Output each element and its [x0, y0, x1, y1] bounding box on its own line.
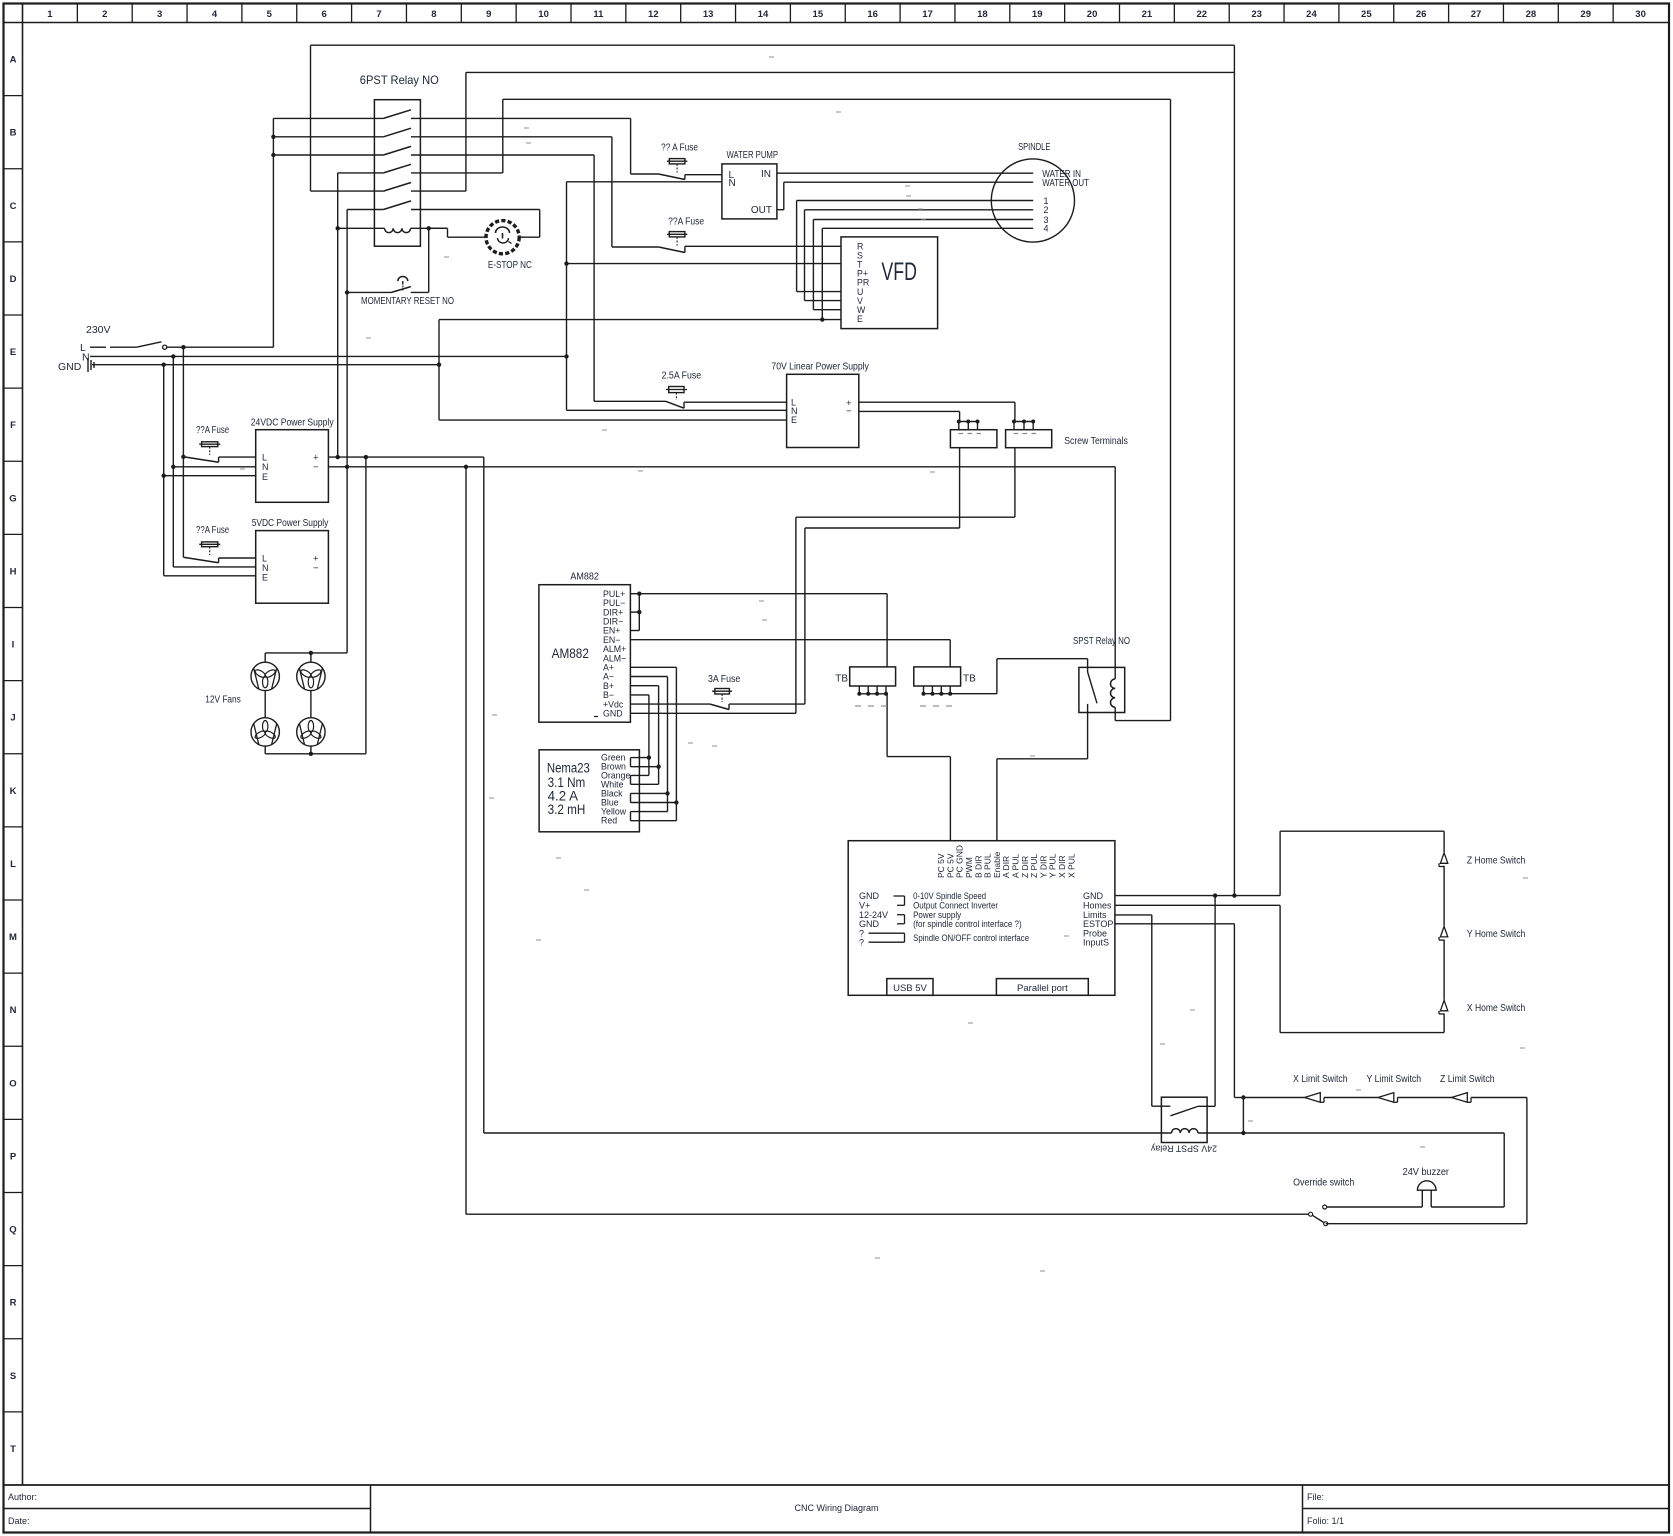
- svg-text:InputS: InputS: [1083, 938, 1109, 948]
- node chain left: [1241, 1095, 1245, 1099]
- relay contact 3 blade: [383, 146, 411, 155]
- driver AM882 box: [539, 585, 631, 723]
- spindle motor circle: [991, 159, 1074, 242]
- svg-text:E: E: [262, 472, 268, 482]
- wire spindle 1 (U): [797, 200, 1034, 202]
- node N riser junction: [564, 354, 568, 358]
- node sw3 tap: [271, 153, 275, 157]
- relay 6PST box K1: [374, 100, 420, 247]
- wire buzzer line: [1327, 1206, 1423, 1208]
- svg-text:15: 15: [813, 9, 824, 20]
- 5VDC power supply box: [256, 531, 329, 604]
- controller board box: [848, 841, 1115, 996]
- svg-text:12V Fans: 12V Fans: [205, 695, 241, 706]
- svg-text:USB 5V: USB 5V: [893, 983, 927, 994]
- node -24 override riser: [464, 465, 468, 469]
- svg-text:2.5A Fuse: 2.5A Fuse: [662, 371, 702, 382]
- wire 24V E: [164, 475, 256, 477]
- svg-text:N: N: [262, 462, 269, 472]
- wire +24 riser to 24V relay coil: [483, 457, 485, 1133]
- svg-text:Output Connect Inverter: Output Connect Inverter: [913, 901, 998, 911]
- fuse F3 2.5A: [669, 387, 684, 393]
- svg-text:L: L: [262, 553, 267, 563]
- wire sw6 left riser: [347, 209, 383, 211]
- svg-text:2: 2: [1044, 205, 1049, 215]
- wire 70V E: [439, 419, 787, 421]
- wire fans top rail: [265, 652, 347, 654]
- wire L riser up: [272, 118, 274, 347]
- wire VFD R: [685, 245, 841, 247]
- svg-text:GND: GND: [1083, 891, 1104, 901]
- fuse F1 ??A (water pump): [669, 159, 685, 164]
- screw terminal block 1: [950, 430, 997, 448]
- fuse F4 ??A (24VDC): [202, 442, 218, 447]
- fuse F6 3A: [715, 689, 730, 695]
- svg-text:Y Limit Switch: Y Limit Switch: [1367, 1074, 1422, 1085]
- switch X home: [1440, 1000, 1447, 1011]
- wire GND pin to homes loop: [1115, 895, 1280, 897]
- switch MOMENTARY RESET NO: [347, 291, 391, 293]
- svg-text:12: 12: [648, 9, 659, 20]
- wire spindle 2 (V): [805, 209, 1034, 211]
- svg-text:13: 13: [703, 9, 714, 20]
- 70V linear power supply box: [787, 374, 859, 447]
- wire home loop: [1279, 831, 1281, 895]
- svg-text:−: −: [313, 563, 319, 574]
- wire E-STOP left to coil node: [448, 236, 487, 238]
- svg-text:GND: GND: [58, 361, 82, 373]
- wire pump IN to spindle: [777, 172, 1033, 174]
- fuse F5 ??A (5VDC): [202, 542, 218, 547]
- svg-text:CNC Wiring Diagram: CNC Wiring Diagram: [794, 1503, 878, 1513]
- fan M3: [251, 718, 279, 746]
- node T tap: [564, 261, 568, 265]
- wire reset right riser: [428, 228, 430, 292]
- svg-text:Folio: 1/1: Folio: 1/1: [1307, 1516, 1344, 1526]
- wire sw1 left from L riser: [273, 117, 383, 119]
- water pump box: [722, 164, 777, 219]
- wire TB2 to SPST relay switch: [996, 659, 998, 694]
- wire sw3 right to 2.5A fuse: [411, 154, 594, 156]
- svg-text:X PUL: X PUL: [1066, 853, 1076, 878]
- node DIR+: [637, 610, 641, 614]
- svg-text:Parallel port: Parallel port: [1017, 983, 1068, 994]
- node GND sw5: [1232, 893, 1236, 897]
- relay K3 coil on +24 line: [484, 1132, 1172, 1134]
- svg-text:TB: TB: [963, 674, 976, 685]
- svg-text:25: 25: [1361, 9, 1372, 20]
- wire block1 bottom to AM882 +Vdc (via 3A fuse): [959, 448, 961, 528]
- wire PUL+/DIR+/EN+ jumper: [630, 593, 639, 595]
- svg-text:X Home Switch: X Home Switch: [1467, 1003, 1525, 1014]
- svg-text:4: 4: [1044, 223, 1049, 233]
- wire Homes pin: [1115, 904, 1280, 906]
- switch X limit: [1305, 1093, 1321, 1103]
- svg-text:Author:: Author:: [8, 1492, 37, 1502]
- wire TB1 to controller PC5V: [886, 694, 888, 757]
- wire motor Black: [631, 792, 668, 794]
- wire B-: [630, 694, 649, 696]
- wire sw2 right to VFD fuse: [411, 136, 612, 138]
- wire K2 switch bottom to Enable: [1087, 704, 1089, 759]
- title block: [4, 1484, 1670, 1486]
- svg-text:Screw Terminals: Screw Terminals: [1064, 436, 1128, 447]
- node L junction: [181, 345, 185, 349]
- svg-text:Nema23: Nema23: [547, 761, 590, 776]
- wire motor Yellow: [631, 811, 668, 813]
- node fan rail2: [309, 752, 313, 756]
- node N 24V tap: [171, 465, 175, 469]
- relay contact 2 blade: [383, 128, 411, 137]
- wire EN- bus to TB2: [630, 639, 950, 641]
- controller left brackets: [894, 895, 905, 897]
- svg-text:TB: TB: [835, 674, 848, 685]
- svg-text:21: 21: [1142, 9, 1153, 20]
- wire +24 rail: [328, 456, 483, 458]
- svg-text:30: 30: [1635, 9, 1646, 20]
- wire N rail: [90, 355, 567, 357]
- svg-text:File:: File:: [1307, 1492, 1324, 1502]
- svg-text:GND: GND: [603, 709, 623, 719]
- svg-text:3: 3: [157, 9, 162, 20]
- svg-text:E: E: [262, 573, 268, 583]
- relay coil K1: [338, 227, 385, 229]
- node +24 coil riser: [336, 455, 340, 459]
- svg-text:AM882: AM882: [552, 645, 589, 661]
- svg-text:−: −: [313, 462, 319, 473]
- svg-text:I: I: [12, 640, 15, 651]
- terminal block TB2: [914, 667, 961, 686]
- svg-text:??A Fuse: ??A Fuse: [668, 217, 704, 228]
- svg-text:A: A: [10, 55, 17, 66]
- wire Limits pin to 24V relay: [1115, 914, 1152, 916]
- svg-text:Z Limit Switch: Z Limit Switch: [1440, 1074, 1495, 1085]
- wire block2 bottom to AM882 GND: [1014, 448, 1016, 518]
- svg-text:5VDC Power Supply: 5VDC Power Supply: [252, 518, 329, 529]
- switch Y limit: [1378, 1093, 1394, 1103]
- svg-text:E: E: [791, 415, 797, 425]
- wire top bus y72: [466, 71, 1235, 73]
- svg-text:E: E: [857, 314, 863, 324]
- svg-text:Q: Q: [9, 1225, 16, 1236]
- wire ESTOP pin to limit chain: [1115, 923, 1235, 925]
- svg-text:N: N: [262, 563, 269, 573]
- fuse F2 ??A (VFD): [669, 232, 685, 237]
- svg-text:3A Fuse: 3A Fuse: [708, 673, 740, 685]
- svg-text:E: E: [10, 347, 16, 358]
- svg-text:Override switch: Override switch: [1293, 1178, 1354, 1189]
- relay K2 blade: [1088, 672, 1097, 703]
- wire sw4 right to SPST coil riser: [411, 172, 503, 174]
- wire top bus y45: [311, 44, 1235, 46]
- wire motor Orange: [631, 774, 649, 776]
- svg-text:5: 5: [267, 9, 273, 20]
- relay 24V SPST box K3: [1161, 1097, 1207, 1142]
- main disconnect switch: [137, 342, 162, 347]
- node N junction: [171, 354, 175, 358]
- relay SPST NO box K2: [1079, 667, 1125, 712]
- node reset left: [345, 290, 349, 294]
- svg-text:6: 6: [322, 9, 327, 20]
- 24VDC power supply box: [256, 430, 329, 503]
- svg-text:WATER PUMP: WATER PUMP: [727, 150, 779, 161]
- pushbutton E-STOP NC: [486, 221, 519, 254]
- svg-text:L: L: [262, 453, 267, 463]
- screw terminal block 2: [1006, 430, 1052, 448]
- node coil right: [427, 226, 431, 230]
- relay contact 4 blade: [383, 164, 411, 173]
- wire sw1 right to water pump fuse: [411, 117, 631, 119]
- svg-text:T: T: [10, 1444, 16, 1455]
- ground symbol: [87, 358, 89, 372]
- wire 70V N: [567, 409, 787, 411]
- wire override riser: [465, 467, 467, 1214]
- wire chain tap to coil line: [1242, 1098, 1244, 1134]
- svg-text:28: 28: [1526, 9, 1537, 20]
- svg-text:Spindle ON/OFF control interfa: Spindle ON/OFF control interface: [913, 933, 1029, 943]
- svg-text:??A Fuse: ??A Fuse: [196, 525, 229, 536]
- wire B+: [630, 685, 658, 687]
- motor Nema23 box: [539, 750, 639, 832]
- svg-text:SPST Relay NO: SPST Relay NO: [1073, 636, 1130, 647]
- node coil left: [336, 226, 340, 230]
- svg-text:20: 20: [1087, 9, 1098, 20]
- relay contact 6 blade: [383, 201, 411, 210]
- wire fans bottom rail: [265, 753, 366, 755]
- node 24V fuse tap: [181, 455, 185, 459]
- decorative stamps: [769, 56, 774, 58]
- svg-text:OUT: OUT: [751, 205, 772, 216]
- wire -24 riser (reset/fans): [346, 210, 348, 653]
- node E 24V tap: [162, 474, 166, 478]
- VFD box U2: [841, 237, 938, 329]
- svg-text:E-STOP NC: E-STOP NC: [488, 259, 532, 271]
- node GND branch: [1213, 893, 1217, 897]
- relay K3 blade: [1170, 1106, 1198, 1115]
- svg-text:O: O: [9, 1078, 16, 1089]
- svg-text:B: B: [10, 128, 17, 139]
- svg-text:1: 1: [47, 9, 53, 20]
- wire sw5 left riser: [311, 190, 384, 192]
- svg-text:26: 26: [1416, 9, 1427, 20]
- svg-text:16: 16: [867, 9, 878, 20]
- relay contact 5 blade: [383, 183, 411, 192]
- svg-text:6PST Relay NO: 6PST Relay NO: [360, 73, 439, 87]
- node limit tap: [1241, 1131, 1245, 1135]
- wire +Vdc through 3A fuse: [630, 703, 710, 705]
- svg-text:MOMENTARY RESET NO: MOMENTARY RESET NO: [361, 296, 454, 307]
- svg-text:230V: 230V: [86, 324, 111, 336]
- svg-text:?? A Fuse: ?? A Fuse: [661, 143, 698, 154]
- node -24 reset riser: [345, 465, 349, 469]
- svg-text:M: M: [9, 932, 17, 943]
- svg-text:R: R: [10, 1298, 17, 1309]
- svg-text:11: 11: [593, 9, 604, 20]
- wire +24 riser to relay coil: [337, 173, 339, 457]
- node sw2 tap: [271, 135, 275, 139]
- svg-text:H: H: [10, 566, 17, 577]
- terminal block TB1: [850, 667, 896, 686]
- svg-text:WATER OUT: WATER OUT: [1042, 178, 1089, 189]
- svg-text:F: F: [10, 420, 16, 431]
- wire 5V E: [164, 575, 256, 577]
- wire L riser down: [182, 347, 184, 557]
- svg-text:27: 27: [1471, 9, 1482, 20]
- svg-text:24: 24: [1306, 9, 1317, 20]
- svg-text:G: G: [9, 493, 16, 504]
- wire 24V N: [173, 466, 255, 468]
- svg-text:18: 18: [977, 9, 988, 20]
- node GND junction: [162, 363, 166, 367]
- svg-text:L: L: [10, 859, 16, 870]
- svg-text:IN: IN: [761, 169, 771, 180]
- wire VFD E: [439, 319, 841, 321]
- wire 70V - to screw block 1: [859, 410, 960, 412]
- relay contact 1 blade: [383, 110, 411, 119]
- svg-text:?: ?: [859, 937, 864, 947]
- node spindle4-E: [820, 317, 824, 321]
- svg-text:N: N: [10, 1005, 17, 1016]
- svg-text:23: 23: [1251, 9, 1262, 20]
- svg-text:14: 14: [758, 9, 769, 20]
- svg-text:9: 9: [486, 9, 491, 20]
- wire sw3 left: [273, 154, 383, 156]
- wire limit chain: [1243, 1097, 1304, 1099]
- wire GND branch to 24V relay blade: [1214, 896, 1216, 1107]
- wire motor Green: [631, 757, 649, 759]
- switch Z home: [1440, 853, 1447, 864]
- svg-text:J: J: [10, 713, 15, 724]
- wire sw2 left: [273, 136, 383, 138]
- relay K2 coil: [1114, 467, 1116, 679]
- fan M1: [251, 662, 279, 690]
- wire motor Blue: [631, 802, 677, 804]
- wire -24 rail to SPST coil: [328, 466, 1115, 468]
- svg-text:X Limit Switch: X Limit Switch: [1293, 1074, 1348, 1085]
- buzzer 24V: [1417, 1181, 1436, 1190]
- svg-text:Red: Red: [601, 816, 617, 826]
- wire sw4 left from +24 riser: [338, 172, 384, 174]
- svg-text:19: 19: [1032, 9, 1043, 20]
- svg-text:Date:: Date:: [8, 1516, 30, 1526]
- node GND-E junction: [437, 363, 441, 367]
- wire 70V + to screw block 2: [859, 401, 1015, 403]
- wire sw6 right to E-STOP: [411, 209, 540, 211]
- svg-text:VFD: VFD: [881, 258, 917, 286]
- wire A+: [630, 666, 676, 668]
- svg-text:8: 8: [431, 9, 436, 20]
- wire GND rail: [92, 364, 439, 366]
- svg-text:24V SPST Relay: 24V SPST Relay: [1151, 1143, 1217, 1154]
- svg-text:24V buzzer: 24V buzzer: [1403, 1167, 1450, 1178]
- switch Z limit: [1452, 1093, 1468, 1103]
- svg-text:7: 7: [376, 9, 381, 20]
- wire K2 coil bottom to top bus: [1115, 720, 1170, 722]
- svg-text:AM882: AM882: [570, 572, 599, 583]
- svg-text:10: 10: [538, 9, 549, 20]
- fan M2: [297, 662, 325, 690]
- wire 5V N: [173, 566, 255, 568]
- Parallel port box: [996, 979, 1088, 996]
- wire chain right to override: [1526, 1098, 1528, 1224]
- svg-text:70V Linear Power Supply: 70V Linear Power Supply: [771, 362, 869, 373]
- svg-text:Z Home Switch: Z Home Switch: [1467, 855, 1525, 866]
- svg-text:C: C: [10, 201, 17, 212]
- wire pump OUT to spindle: [777, 209, 784, 211]
- wire motor Red: [631, 820, 677, 822]
- node PUL+: [637, 592, 641, 596]
- svg-text:Y Home Switch: Y Home Switch: [1467, 929, 1525, 940]
- wire spindle 4 (E): [822, 227, 1033, 229]
- wire motor White: [631, 783, 659, 785]
- svg-text:(for spindle control interface: (for spindle control interface ?): [913, 919, 1022, 929]
- svg-text:S: S: [10, 1371, 16, 1382]
- wire GND: [630, 712, 796, 714]
- svg-text:ESTOP: ESTOP: [1083, 919, 1113, 929]
- motor phase brackets: [630, 758, 632, 767]
- svg-text:22: 22: [1196, 9, 1207, 20]
- svg-text:2: 2: [102, 9, 107, 20]
- wire PUL+ bus to TB1: [639, 593, 887, 595]
- node +24 fans riser: [364, 455, 368, 459]
- svg-text:D: D: [10, 274, 17, 285]
- svg-text:24VDC Power Supply: 24VDC Power Supply: [251, 418, 334, 429]
- svg-text:−: −: [846, 406, 852, 417]
- USB 5V port box: [887, 979, 933, 996]
- wire A-: [630, 676, 667, 678]
- node fan rail: [309, 651, 313, 655]
- svg-text:P: P: [10, 1151, 17, 1162]
- wire spindle 3 (W): [813, 219, 1033, 221]
- switch Y home: [1440, 926, 1447, 937]
- svg-text:3.2 mH: 3.2 mH: [548, 802, 586, 817]
- svg-text:Homes: Homes: [1083, 901, 1112, 911]
- switch override: [1309, 1212, 1313, 1216]
- wire VFD T from N riser: [567, 263, 842, 265]
- wire L to relay riser: [167, 346, 273, 348]
- wire L lead dashes: [90, 346, 106, 348]
- svg-text:4: 4: [212, 9, 218, 20]
- wire top bus y99: [503, 98, 1171, 100]
- svg-text:??A Fuse: ??A Fuse: [196, 425, 229, 436]
- wire motor Brown: [631, 766, 659, 768]
- svg-text:SPINDLE: SPINDLE: [1018, 142, 1051, 153]
- wire override common: [466, 1213, 1309, 1215]
- wire sw5 right riser: [411, 190, 466, 192]
- wire pump N: [567, 181, 722, 183]
- svg-text:29: 29: [1580, 9, 1591, 20]
- svg-text:N: N: [729, 178, 736, 189]
- svg-text:K: K: [10, 786, 17, 797]
- svg-text:17: 17: [922, 9, 933, 20]
- fan M4: [297, 718, 325, 746]
